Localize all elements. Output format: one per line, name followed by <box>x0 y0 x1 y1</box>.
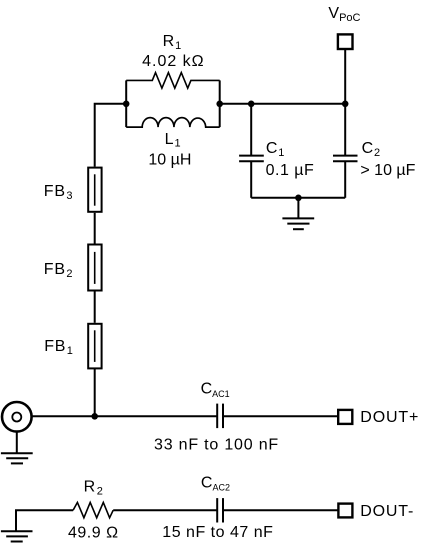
wire node B to node N2 <box>220 103 346 105</box>
wire parallel-box right side <box>219 80 221 127</box>
node A junction dot <box>123 101 130 108</box>
node B junction dot <box>216 101 223 108</box>
ground below connector J1 <box>1 453 33 463</box>
wire CAC1 to DOUT+ terminal <box>223 415 338 417</box>
svg-text:DOUT+: DOUT+ <box>360 409 419 426</box>
svg-text:15 nF to 47 nF: 15 nF to 47 nF <box>162 524 273 541</box>
capacitor C2 <box>333 104 358 198</box>
wire parallel-box left side <box>125 80 127 127</box>
node C junction dot <box>91 413 98 420</box>
wire top-left corner to node A <box>95 104 127 167</box>
ground bottom-left <box>1 531 33 541</box>
ferrite bead FB3 <box>88 168 101 212</box>
capacitor C1 <box>239 104 264 198</box>
ground below C1/C2 <box>282 198 314 229</box>
connector J1 inner circle <box>12 413 21 422</box>
svg-text:DOUT-: DOUT- <box>360 503 414 520</box>
wire CAC2 to DOUT- terminal <box>223 509 338 511</box>
resistor R1 <box>126 73 220 89</box>
wire R2 to CAC2 <box>113 509 217 511</box>
capacitor CAC1 <box>217 404 223 429</box>
wire FB3 to FB2 <box>94 213 96 244</box>
wire FB2 to FB1 <box>94 291 96 323</box>
node C1-top junction dot <box>248 101 255 108</box>
terminal VPoC <box>338 34 353 49</box>
svg-text:10 µH: 10 µH <box>148 152 191 169</box>
connector J1 outer circle <box>2 402 32 432</box>
inductor L1 <box>126 118 220 128</box>
wire connector to CAC1 <box>32 415 217 417</box>
ferrite bead FB2 <box>88 245 101 291</box>
node N2 junction dot <box>342 101 349 108</box>
wire bottom-left corner to R2 <box>16 510 73 531</box>
svg-text:4.02 kΩ: 4.02 kΩ <box>142 53 205 70</box>
svg-text:33 nF to 100 nF: 33 nF to 100 nF <box>154 436 279 453</box>
svg-text:> 10 µF: > 10 µF <box>360 162 415 179</box>
wire FB1 to node C <box>94 368 96 416</box>
capacitor CAC2 <box>217 498 223 522</box>
ferrite bead FB1 <box>88 324 101 369</box>
svg-text:0.1 µF: 0.1 µF <box>266 162 315 179</box>
resistor R2 <box>73 502 113 517</box>
terminal DOUT+ <box>338 410 352 424</box>
terminal DOUT- <box>338 504 352 518</box>
svg-text:49.9 Ω: 49.9 Ω <box>68 524 119 541</box>
wire bottom rail C1 to C2 <box>251 197 345 199</box>
node ground-rail junction dot <box>295 195 302 202</box>
wire VPoC terminal to node N2 <box>344 50 346 104</box>
wire connector to ground <box>16 432 18 453</box>
